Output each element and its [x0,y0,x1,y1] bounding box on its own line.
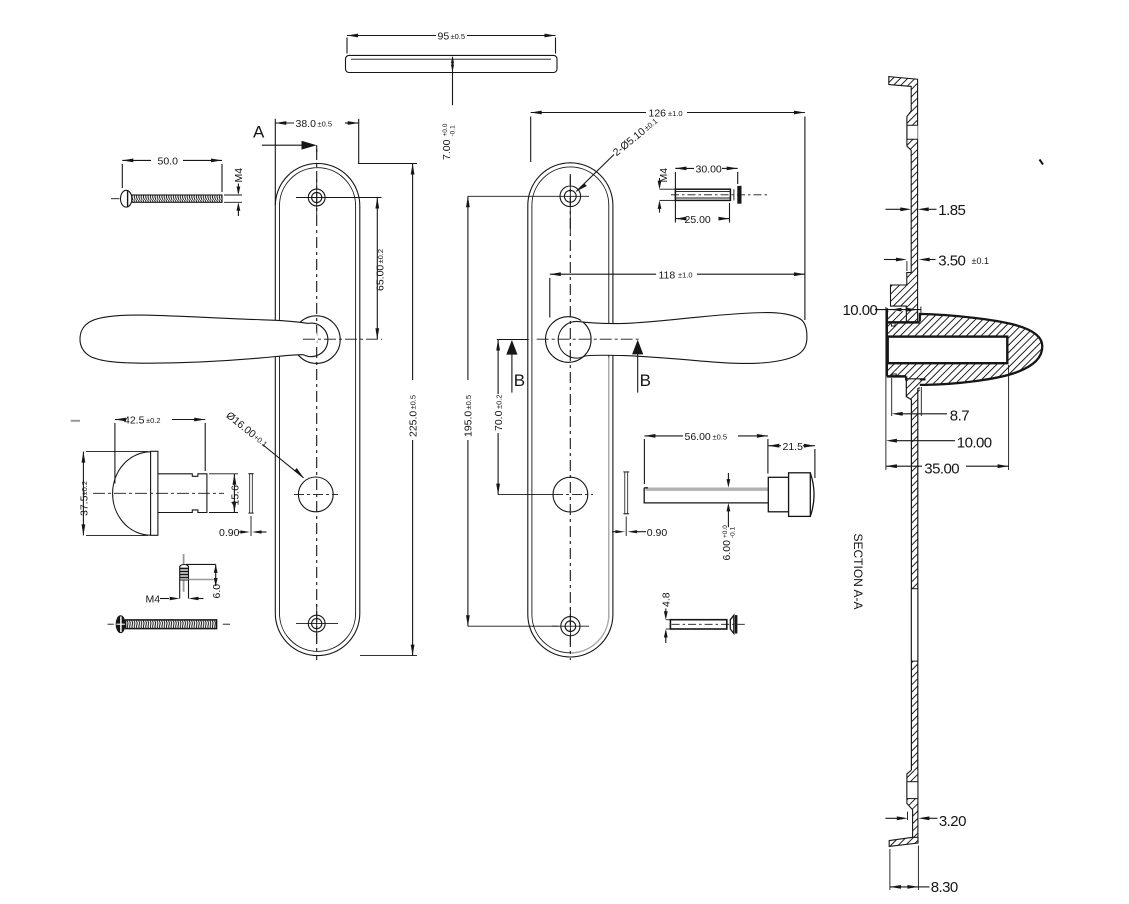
section arrow B (right) [632,340,651,393]
left plate top screw hole [296,180,382,215]
svg-text:3.50: 3.50 [938,253,965,270]
svg-text:±0.5: ±0.5 [409,395,418,410]
svg-text:8.30: 8.30 [931,879,958,896]
label Ø16.00+0.1 with leader [224,410,304,478]
dimension 6.0 (grub screw) [186,564,223,598]
dimension 8.30 [890,846,958,897]
svg-text:B: B [640,371,651,390]
svg-text:±0.2: ±0.2 [494,394,503,409]
svg-text:±0.5: ±0.5 [464,395,473,410]
bottom mounting screw [108,616,231,633]
svg-text:195.0: 195.0 [463,411,475,437]
svg-text:37.5: 37.5 [79,495,91,516]
left plate centerline (section cut A) [316,149,318,660]
screw hole window in upper boss [907,125,918,139]
SECTION A-A: backplate profile upper [889,77,918,323]
svg-text:M4: M4 [658,168,670,183]
svg-text:±0.5: ±0.5 [318,120,333,129]
svg-text:65.00: 65.00 [375,265,387,291]
svg-text:10.00: 10.00 [957,435,992,452]
svg-text:SECTION A-A: SECTION A-A [851,534,865,610]
svg-text:-0.1: -0.1 [729,526,736,538]
middle lever handle [579,313,807,364]
svg-text:1.85: 1.85 [938,202,965,219]
dimension 10.00 (upper left) [843,302,921,319]
label SECTION A-A [851,534,865,610]
svg-text:25.00: 25.00 [685,214,711,226]
svg-text:95: 95 [438,31,450,43]
SECTION A-A: backplate profile lower [906,379,920,770]
svg-text:35.00: 35.00 [924,461,959,478]
svg-text:±0.5: ±0.5 [713,432,728,441]
svg-text:6.00: 6.00 [721,540,733,561]
svg-text:±0.2: ±0.2 [376,249,385,264]
dimension M4 (spindle) [658,168,676,213]
dimension 7.00 +0.0/-0.1 [441,56,457,160]
spindle hole in hub [888,337,1008,364]
left plate bottom screw hole [296,604,338,643]
left handle boss (rose) [293,316,341,364]
svg-text:8.7: 8.7 [950,407,969,424]
label M4 (grub screw) [146,593,204,605]
svg-text:±1.0: ±1.0 [668,109,683,118]
middle backplate rear view [528,163,613,657]
svg-text:70.0: 70.0 [493,410,505,431]
middle handle boss [546,317,592,363]
dimension 65.00±0.2 [375,198,387,340]
svg-text:±0.1: ±0.1 [972,256,989,266]
dimension 38.0±0.5 [275,118,358,205]
label 2-Ø5.10±0.1 with leader [576,115,660,191]
svg-text:+0.0: +0.0 [722,525,729,538]
svg-text:38.0: 38.0 [296,118,317,130]
dimension 6.00+0.0/-0.1 (pin) [721,473,737,561]
svg-text:7.00: 7.00 [441,139,453,160]
dimension 3.20 [885,812,966,830]
svg-text:M4: M4 [233,168,245,183]
dimension 118±1.0 [550,269,805,317]
svg-text:±0.2: ±0.2 [80,481,89,496]
dimension 30.00 (spindle) [675,164,737,223]
svg-text:-0.1: -0.1 [450,125,457,137]
svg-text:M4: M4 [146,593,161,605]
dimension 3.50±0.1 [884,253,989,272]
svg-text:0.90: 0.90 [647,527,668,539]
handle fixing pin 56mm [644,473,814,517]
dimension 70.0±0.2 [493,340,553,495]
dimension 126±1.0 [531,108,805,320]
dimension 21.5 (pin head) [768,441,815,478]
top mounting screw 50mm [111,190,222,207]
dimension 4.8 (screw) [661,592,673,643]
dimension 8.7 [892,378,970,424]
svg-text:15.6: 15.6 [230,485,242,506]
SECTION A-A: handle hub and grip cross-section [887,306,1042,397]
dimension 1.85 [886,202,966,219]
dimension 56.00±0.5 (pin) [644,431,768,484]
spring washer (middle) [623,472,629,536]
dimension 225.0±0.5 [358,164,419,656]
dimension 195.0±0.5 [463,196,558,626]
spindle screw M4x30 [671,186,768,204]
left handle centerline [303,338,382,340]
dimension 15.6 [209,474,242,513]
left lever handle [80,315,317,363]
middle plate bottom hole [552,607,589,645]
svg-text:6.0: 6.0 [211,584,223,599]
left handle neck circle [304,323,328,356]
countersunk screw 4.8 [670,615,744,633]
dimension 35.00 [886,365,1009,478]
middle plate top hole [468,176,589,233]
dimension 0.90 (left washer) [219,527,267,539]
stray centerline mark [71,420,80,422]
dimension 95±0.5 [347,31,556,54]
svg-text:50.0: 50.0 [158,155,179,167]
svg-text:B: B [514,371,525,390]
SECTION A-A: bottom foot [889,837,918,846]
svg-text:A: A [253,123,265,142]
middle plate spindle hole [553,477,593,512]
svg-text:3.20: 3.20 [939,813,966,830]
dimension 10.00 (lower left) [886,307,992,470]
svg-text:42.5: 42.5 [124,415,145,427]
turn knob part [93,451,224,535]
svg-text:±0.5: ±0.5 [451,32,466,41]
dimension 37.5±0.2 [79,452,148,536]
dimension 50.0 [122,155,222,192]
left plate keyhole Ø16 [294,477,338,512]
left backplate front view [275,163,360,655]
svg-text:225.0: 225.0 [407,411,419,437]
SECTION A-A: bottom jog of backplate [907,770,918,839]
dimension 25.00 (spindle) [675,203,729,226]
svg-text:4.8: 4.8 [661,592,673,607]
stray tick mark [1040,160,1044,165]
svg-text:±0.2: ±0.2 [146,416,161,425]
dimension 0.90 (middle washer) [612,527,667,539]
spring washer (left) [248,474,253,536]
dimension M4 (top screw) [224,168,245,216]
svg-text:0.90: 0.90 [219,527,240,539]
svg-text:56.00: 56.00 [685,431,711,443]
svg-text:+0.0: +0.0 [442,123,449,136]
svg-text:10.00: 10.00 [843,302,878,319]
svg-text:21.5: 21.5 [783,441,804,453]
svg-text:30.00: 30.00 [696,164,722,176]
section arrow A [262,141,317,152]
middle handle neck circle [558,321,585,358]
middle plate centerline [569,174,571,660]
svg-text:±1.0: ±1.0 [678,271,693,280]
M4 grub screw [180,554,189,599]
dimension 42.5±0.2 [115,415,205,484]
svg-text:118: 118 [659,269,676,281]
section arrow B (left) [506,340,525,393]
top plan view plate [346,55,558,72]
middle handle centerline [537,338,640,340]
